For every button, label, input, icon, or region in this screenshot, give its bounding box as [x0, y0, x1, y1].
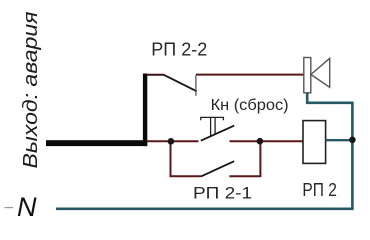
node B junction [257, 138, 264, 145]
wire: stub left of N [5, 207, 14, 209]
wire: buzzer to node (teal) [56, 93, 352, 209]
wire: thick output bus [46, 140, 147, 146]
wire: bus to node A [147, 140, 199, 142]
wire: to buzzer [196, 74, 304, 76]
node A junction [168, 138, 175, 145]
svg-text:N: N [17, 192, 37, 222]
contact РП 2-1 branch [171, 141, 202, 176]
svg-text:Кн (сброс): Кн (сброс) [211, 97, 289, 114]
contact РП 2-2 [147, 74, 164, 76]
wire: node B to relay coil [230, 140, 304, 142]
svg-text:РП 2-1: РП 2-1 [193, 185, 252, 203]
svg-text:РП 2: РП 2 [302, 180, 337, 200]
svg-text:Выход: авария: Выход: авария [20, 11, 42, 168]
wire: thick vertical bar [143, 74, 147, 147]
relay coil РП 2 [303, 121, 326, 164]
push button Кн (сброс) [201, 117, 224, 120]
wire: relay coil to N node (teal) [326, 139, 353, 141]
node C junction [349, 137, 356, 144]
buzzer HA1 [304, 58, 311, 93]
svg-text:РП 2-2: РП 2-2 [151, 40, 207, 60]
